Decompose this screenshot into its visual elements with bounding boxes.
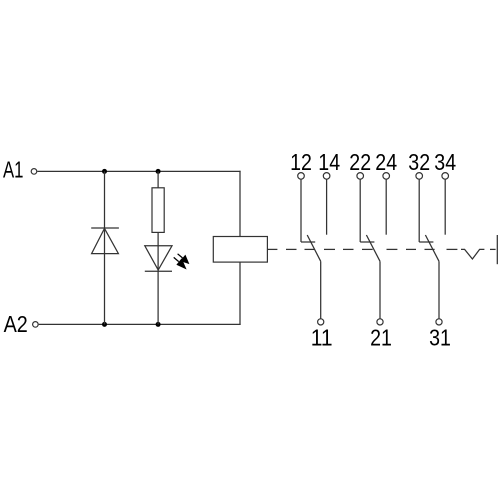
wire contact 22 [359, 180, 361, 243]
terminal 34 [442, 173, 449, 180]
LED D2 triangle [145, 246, 172, 270]
terminal 12 [298, 173, 305, 180]
contact 2 NC seat tick [360, 241, 374, 243]
terminal 14 [323, 173, 330, 180]
terminal 24 [383, 173, 390, 180]
terminal A2 [33, 322, 39, 328]
svg-text:34: 34 [434, 149, 456, 175]
terminal A1 [31, 169, 37, 175]
wire common 11 [320, 261, 322, 318]
wire contact 34 [444, 180, 446, 235]
wire LED branch [157, 171, 159, 324]
LED light arrow 1 [178, 254, 190, 264]
svg-text:12: 12 [290, 149, 312, 175]
LED D2 cathode bar [145, 270, 172, 272]
contact 2 armature [366, 235, 380, 261]
LED light arrow 2 [174, 257, 187, 269]
test button V notch [461, 249, 484, 259]
junction node diode branch bottom [102, 322, 107, 327]
terminal 32 [416, 173, 423, 180]
contact 3 NC seat tick [419, 241, 433, 243]
wire common 31 [438, 261, 440, 318]
wire diode branch [104, 171, 106, 324]
wire contact 14 [326, 180, 328, 235]
svg-text:11: 11 [311, 325, 333, 351]
junction node diode branch top [102, 169, 107, 174]
svg-text:22: 22 [349, 149, 371, 175]
svg-text:24: 24 [375, 149, 397, 175]
wire A1 rail [37, 170, 240, 172]
contact 1 NC seat tick [301, 241, 315, 243]
svg-text:21: 21 [370, 325, 392, 351]
svg-text:14: 14 [318, 149, 340, 175]
svg-text:A1: A1 [3, 157, 24, 183]
svg-text:A2: A2 [4, 311, 28, 337]
junction node LED branch bottom [156, 322, 161, 327]
terminal 11 [318, 319, 324, 325]
relay coil K1 [213, 237, 267, 263]
wire contact 32 [418, 180, 420, 243]
terminal 22 [357, 173, 364, 180]
mechanical link dashed line [267, 248, 457, 250]
wire contact 12 [300, 180, 302, 243]
diode V1 triangle [92, 228, 119, 253]
wire common 21 [379, 261, 381, 318]
wire coil branch top [239, 171, 241, 237]
wire coil branch bottom [239, 262, 241, 325]
contact 3 armature [425, 235, 439, 261]
svg-text:32: 32 [408, 149, 430, 175]
svg-text:31: 31 [429, 325, 451, 351]
wire contact 24 [385, 180, 387, 235]
diode V1 cathode bar [91, 227, 119, 229]
junction node LED branch top [156, 169, 161, 174]
resistor R1 [152, 188, 164, 233]
frame anchor bar [496, 235, 498, 264]
wire A2 rail [39, 323, 241, 325]
dash before stop bar [490, 248, 496, 250]
contact 1 armature [307, 235, 321, 261]
terminal 21 [377, 319, 383, 325]
terminal 31 [436, 319, 442, 325]
